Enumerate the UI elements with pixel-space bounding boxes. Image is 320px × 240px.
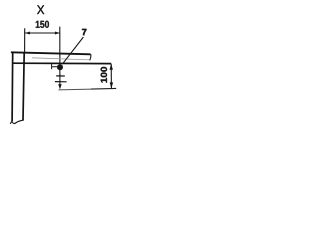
bottom extension line right part (91, 87, 116, 90)
bolt left arm tick (51, 64, 53, 69)
detail label X (37, 5, 44, 14)
bolt crossbar lower (55, 81, 67, 83)
dimension text 150 (36, 21, 49, 28)
beam top line (11, 52, 91, 54)
label 7 (82, 29, 86, 35)
arrowhead left of 150 dim (25, 32, 30, 35)
dimension line 150 (25, 32, 60, 34)
bolt left arm (52, 66, 58, 68)
column left flange (11, 52, 14, 121)
arrowhead right of 150 dim (55, 32, 60, 35)
cleat / seating line (12, 62, 111, 64)
beam end edge (90, 54, 91, 60)
beam bottom line (faint) (32, 58, 90, 60)
column right flange (23, 53, 24, 121)
leader line from 7 (62, 37, 83, 64)
centerline / bolt axis (59, 27, 61, 86)
dimension line 100 (110, 64, 112, 88)
column bottom break squiggle (10, 120, 24, 124)
extension tick left of 150 dim (24, 28, 26, 53)
bottom extension line (59, 88, 92, 91)
dimension text 100 (rotated) (101, 67, 107, 83)
arrowhead top of 100 dim (110, 64, 113, 70)
bolt crossbar upper (56, 75, 65, 77)
arrowhead bottom of 100 dim (110, 82, 113, 88)
arrowhead bottom of bolt axis (58, 84, 61, 89)
bolt dot (57, 64, 63, 70)
